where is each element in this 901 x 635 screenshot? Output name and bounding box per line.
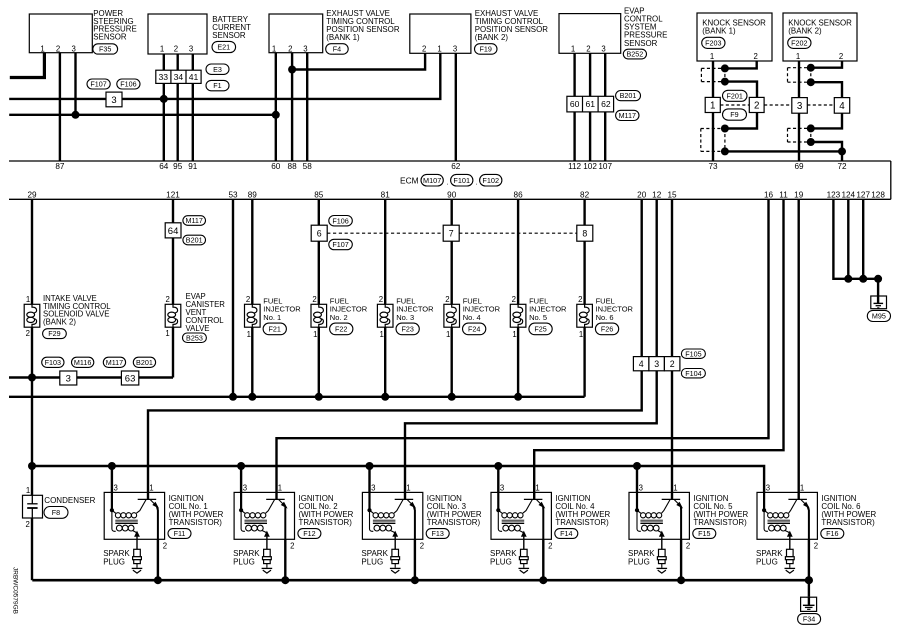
svg-text:1: 1 <box>272 44 276 53</box>
svg-text:F101: F101 <box>453 176 470 185</box>
svg-text:1: 1 <box>437 44 441 53</box>
svg-text:2: 2 <box>548 541 552 550</box>
svg-text:2: 2 <box>26 329 30 338</box>
svg-text:2: 2 <box>290 541 294 550</box>
svg-text:73: 73 <box>708 162 718 171</box>
svg-text:F106: F106 <box>120 80 136 89</box>
svg-text:M107: M107 <box>423 176 441 185</box>
svg-text:PLUG: PLUG <box>103 558 125 567</box>
svg-text:B201: B201 <box>620 91 637 100</box>
svg-text:F107: F107 <box>332 240 348 249</box>
svg-text:F24: F24 <box>468 324 480 333</box>
svg-text:No. 3: No. 3 <box>396 313 414 322</box>
svg-text:2: 2 <box>288 44 292 53</box>
svg-text:2: 2 <box>379 295 383 304</box>
svg-text:3: 3 <box>797 101 803 112</box>
svg-text:64: 64 <box>159 162 169 171</box>
svg-text:CONDENSER: CONDENSER <box>44 496 95 505</box>
svg-text:F12: F12 <box>303 529 315 538</box>
svg-text:F202: F202 <box>791 38 807 47</box>
svg-text:VALVE: VALVE <box>186 324 210 333</box>
svg-text:86: 86 <box>514 191 524 200</box>
svg-text:F11: F11 <box>174 529 186 538</box>
svg-text:16: 16 <box>764 191 774 200</box>
svg-text:F105: F105 <box>685 349 701 358</box>
svg-text:SENSOR: SENSOR <box>212 31 246 40</box>
svg-text:3: 3 <box>766 484 770 493</box>
svg-text:F102: F102 <box>482 176 499 185</box>
svg-text:PLUG: PLUG <box>756 558 778 567</box>
svg-text:F34: F34 <box>803 615 815 624</box>
svg-text:TRANSISTOR): TRANSISTOR) <box>821 518 875 527</box>
svg-text:PLUG: PLUG <box>233 558 255 567</box>
svg-text:3: 3 <box>500 484 504 493</box>
svg-text:.: . <box>475 178 477 187</box>
svg-text:85: 85 <box>314 191 324 200</box>
svg-text:F14: F14 <box>560 529 572 538</box>
svg-text:1: 1 <box>800 484 804 493</box>
svg-text:3: 3 <box>114 484 118 493</box>
svg-text:3: 3 <box>639 484 643 493</box>
svg-text:12: 12 <box>652 191 662 200</box>
svg-text:2: 2 <box>246 295 250 304</box>
svg-text:6: 6 <box>317 228 322 238</box>
svg-text:1: 1 <box>406 484 410 493</box>
svg-text:TRANSISTOR): TRANSISTOR) <box>693 518 747 527</box>
svg-text:2: 2 <box>814 541 818 550</box>
svg-text:90: 90 <box>447 191 457 200</box>
svg-text:1: 1 <box>796 52 800 61</box>
svg-text:2: 2 <box>586 44 590 53</box>
svg-text:(BANK 2): (BANK 2) <box>43 318 76 327</box>
svg-text:No. 2: No. 2 <box>330 313 348 322</box>
svg-text:95: 95 <box>173 162 183 171</box>
svg-text:19: 19 <box>794 191 804 200</box>
svg-text:B201: B201 <box>136 358 153 367</box>
svg-text:15: 15 <box>667 191 677 200</box>
svg-text:20: 20 <box>637 191 647 200</box>
svg-text:1: 1 <box>710 100 715 111</box>
svg-text:8: 8 <box>582 228 587 238</box>
svg-text:F4: F4 <box>333 45 341 54</box>
svg-text:F106: F106 <box>332 216 348 225</box>
svg-text:2: 2 <box>839 52 843 61</box>
svg-text:E3: E3 <box>213 65 222 74</box>
svg-text:ECM: ECM <box>400 175 419 185</box>
svg-text:.: . <box>446 178 448 187</box>
svg-text:PLUG: PLUG <box>628 558 650 567</box>
svg-text:102: 102 <box>583 162 597 171</box>
svg-text:91: 91 <box>188 162 198 171</box>
svg-text:11: 11 <box>779 191 788 200</box>
svg-text:(BANK 2): (BANK 2) <box>788 26 822 35</box>
svg-text:64: 64 <box>168 226 179 237</box>
svg-text:107: 107 <box>598 162 612 171</box>
svg-text:M117: M117 <box>106 358 123 367</box>
svg-text:M116: M116 <box>74 358 91 367</box>
svg-text:2: 2 <box>56 44 60 53</box>
svg-text:F15: F15 <box>698 529 710 538</box>
svg-text:TRANSISTOR): TRANSISTOR) <box>555 518 609 527</box>
svg-text:F35: F35 <box>99 45 111 54</box>
svg-text:F103: F103 <box>45 358 61 367</box>
svg-text:1: 1 <box>446 330 450 339</box>
svg-text:34: 34 <box>174 72 184 82</box>
svg-text:60: 60 <box>570 99 580 109</box>
svg-text:60: 60 <box>271 162 281 171</box>
svg-text:M117: M117 <box>185 216 202 225</box>
svg-text:PLUG: PLUG <box>361 558 383 567</box>
svg-text:121: 121 <box>166 191 180 200</box>
svg-text:2: 2 <box>174 44 178 53</box>
svg-text:1: 1 <box>380 330 384 339</box>
svg-text:SENSOR: SENSOR <box>93 33 127 42</box>
svg-text:(BANK 1): (BANK 1) <box>326 33 360 42</box>
svg-text:63: 63 <box>125 373 136 384</box>
svg-text:No. 5: No. 5 <box>529 313 547 322</box>
svg-text:B201: B201 <box>186 236 203 245</box>
svg-text:1: 1 <box>710 52 714 61</box>
svg-text:33: 33 <box>159 72 169 82</box>
svg-text:No. 6: No. 6 <box>596 313 614 322</box>
svg-text:F203: F203 <box>705 38 721 47</box>
svg-text:PLUG: PLUG <box>490 558 512 567</box>
svg-text:112: 112 <box>568 162 581 171</box>
svg-text:3: 3 <box>371 484 375 493</box>
svg-text:1: 1 <box>160 44 164 53</box>
svg-text:F201: F201 <box>727 91 743 100</box>
svg-text:(BANK 2): (BANK 2) <box>475 33 509 42</box>
svg-text:124: 124 <box>841 191 855 200</box>
svg-text:1: 1 <box>535 484 539 493</box>
svg-text:4: 4 <box>839 101 845 112</box>
svg-text:4: 4 <box>639 359 644 369</box>
svg-text:41: 41 <box>189 72 199 82</box>
svg-text:2: 2 <box>26 520 30 529</box>
svg-text:F104: F104 <box>685 369 701 378</box>
svg-text:3: 3 <box>601 44 605 53</box>
svg-text:72: 72 <box>837 162 847 171</box>
svg-text:1: 1 <box>149 484 153 493</box>
svg-text:F9: F9 <box>730 110 738 119</box>
svg-text:1: 1 <box>579 330 583 339</box>
svg-text:62: 62 <box>601 99 611 109</box>
svg-text:3: 3 <box>453 44 457 53</box>
svg-text:81: 81 <box>381 191 391 200</box>
svg-text:B253: B253 <box>186 333 203 342</box>
svg-text:61: 61 <box>586 99 596 109</box>
svg-text:3: 3 <box>189 44 193 53</box>
svg-text:E21: E21 <box>217 43 230 52</box>
svg-text:82: 82 <box>580 191 590 200</box>
svg-text:JRBWC0579GB: JRBWC0579GB <box>12 567 19 614</box>
svg-text:3: 3 <box>303 44 307 53</box>
svg-text:3: 3 <box>72 44 76 53</box>
svg-text:F107: F107 <box>90 80 106 89</box>
svg-text:F29: F29 <box>48 329 60 338</box>
svg-text:2: 2 <box>686 541 690 550</box>
svg-text:2: 2 <box>578 295 582 304</box>
svg-text:F23: F23 <box>401 324 413 333</box>
svg-text:TRANSISTOR): TRANSISTOR) <box>299 518 353 527</box>
svg-text:F8: F8 <box>52 508 60 517</box>
svg-text:F13: F13 <box>432 529 444 538</box>
svg-text:3: 3 <box>66 373 71 384</box>
svg-text:F19: F19 <box>480 45 492 54</box>
svg-text:7: 7 <box>449 228 454 238</box>
svg-text:1: 1 <box>26 295 30 304</box>
svg-text:1: 1 <box>313 330 317 339</box>
svg-text:2: 2 <box>445 295 449 304</box>
svg-text:2: 2 <box>670 359 675 369</box>
svg-text:2: 2 <box>754 100 759 111</box>
svg-text:B252: B252 <box>627 50 644 59</box>
svg-text:62: 62 <box>451 162 461 171</box>
svg-text:1: 1 <box>571 44 575 53</box>
svg-text:(BANK 1): (BANK 1) <box>702 26 736 35</box>
svg-text:3: 3 <box>654 359 659 369</box>
svg-text:69: 69 <box>794 162 804 171</box>
svg-text:88: 88 <box>288 162 298 171</box>
svg-text:1: 1 <box>673 484 677 493</box>
svg-text:29: 29 <box>27 191 37 200</box>
svg-text:M117: M117 <box>619 111 636 120</box>
svg-text:1: 1 <box>512 330 516 339</box>
svg-text:TRANSISTOR): TRANSISTOR) <box>169 518 223 527</box>
svg-text:F16: F16 <box>826 529 838 538</box>
svg-text:2: 2 <box>166 295 170 304</box>
svg-text:1: 1 <box>247 330 251 339</box>
svg-text:3: 3 <box>243 484 247 493</box>
svg-text:2: 2 <box>512 295 516 304</box>
svg-text:1: 1 <box>278 484 282 493</box>
svg-text:F1: F1 <box>213 81 221 90</box>
svg-text:89: 89 <box>248 191 258 200</box>
svg-text:2: 2 <box>420 541 424 550</box>
svg-text:127: 127 <box>856 191 870 200</box>
svg-text:F26: F26 <box>601 324 613 333</box>
svg-text:2: 2 <box>422 44 426 53</box>
svg-text:F22: F22 <box>335 324 347 333</box>
svg-text:No. 1: No. 1 <box>263 313 281 322</box>
svg-text:123: 123 <box>827 191 841 200</box>
svg-text:1: 1 <box>26 486 30 495</box>
svg-text:53: 53 <box>228 191 238 200</box>
svg-text:58: 58 <box>303 162 313 171</box>
svg-text:M95: M95 <box>872 312 886 321</box>
svg-text:3: 3 <box>111 95 116 106</box>
svg-text:F21: F21 <box>269 324 281 333</box>
svg-text:SENSOR: SENSOR <box>624 39 658 48</box>
svg-text:TRANSISTOR): TRANSISTOR) <box>427 518 481 527</box>
svg-text:128: 128 <box>871 191 885 200</box>
svg-text:1: 1 <box>165 329 169 338</box>
svg-text:2: 2 <box>312 295 316 304</box>
svg-text:1: 1 <box>40 44 44 53</box>
svg-text:No. 4: No. 4 <box>463 313 481 322</box>
svg-text:87: 87 <box>55 162 65 171</box>
svg-text:2: 2 <box>754 52 758 61</box>
svg-text:2: 2 <box>163 541 167 550</box>
svg-text:F25: F25 <box>534 324 546 333</box>
